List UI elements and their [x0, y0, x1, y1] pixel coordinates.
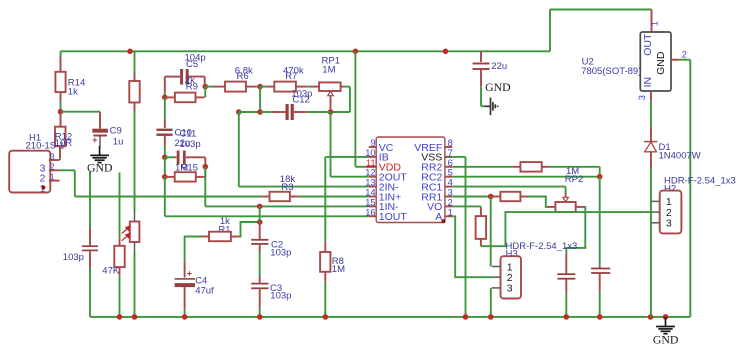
- resistor R1 left pin: [202, 236, 209, 238]
- diode D1 pin: [650, 152, 652, 168]
- svg-text:7805(SOT-89): 7805(SOT-89): [581, 66, 641, 77]
- wire to IC pin13: [239, 186, 369, 188]
- svg-text:1M: 1M: [332, 264, 345, 275]
- capacitor C2 bottom pin: [259, 245, 261, 253]
- wire RR2: [452, 166, 512, 168]
- capacitor C4 bottom pin: [184, 287, 186, 310]
- wire 103p to rail: [89, 269, 91, 317]
- wire R9 right up: [204, 87, 206, 98]
- wire wiper node down: [330, 112, 332, 177]
- capacitor bottom pin: [565, 280, 567, 294]
- potentiometer RP2 body: [555, 202, 575, 212]
- wire resistor to RP2 left: [529, 197, 547, 207]
- svg-text:3: 3: [448, 188, 453, 198]
- junction R15/C11 right node: [203, 164, 209, 170]
- svg-text:1: 1: [650, 21, 660, 26]
- connector H3: [501, 256, 522, 298]
- svg-text:5: 5: [448, 168, 453, 178]
- svg-text:C5: C5: [186, 59, 198, 70]
- svg-text:1M: 1M: [322, 65, 335, 76]
- wire 47K to rail: [119, 275, 121, 317]
- resistor R8: [320, 252, 330, 272]
- wire node to R6: [205, 86, 212, 88]
- resistor R7 right pin: [296, 86, 307, 88]
- resistor R6 left pin: [213, 86, 226, 88]
- potentiometer RP2 left pin: [547, 206, 556, 208]
- IC anchor dot: [442, 219, 446, 223]
- capacitor C10 plate: [156, 129, 172, 131]
- wire rail to VDD: [354, 51, 356, 167]
- capacitor 103p top pin: [89, 227, 91, 245]
- RP2 wiper pin: [565, 193, 567, 197]
- capacitor C3 bottom pin: [259, 289, 261, 307]
- svg-text:103p: 103p: [270, 291, 291, 302]
- capacitor C12 plate: [291, 104, 294, 120]
- svg-text:1N4007W: 1N4007W: [659, 151, 701, 162]
- resistor R12 top pin: [60, 112, 62, 127]
- wire to R9 node: [164, 91, 166, 97]
- resistor R9 right pin: [196, 96, 205, 98]
- IC pin 5 stub: [445, 176, 452, 178]
- svg-text:C12: C12: [292, 95, 309, 106]
- H1 pin 3 stub: [49, 159, 60, 161]
- wire bottom rail: [90, 316, 690, 318]
- resistor R12 bottom pin: [59, 146, 61, 157]
- capacitor C10 bottom pin: [164, 136, 166, 146]
- diode D1 cathode bar: [644, 141, 657, 143]
- wire C12 line: [239, 111, 260, 113]
- potentiometer RP1 left pin: [310, 86, 319, 88]
- wire node down: [259, 87, 261, 112]
- wire to C12: [260, 111, 272, 113]
- potentiometer RP1 right pin: [341, 86, 344, 88]
- junction on bottom rail: [117, 314, 123, 320]
- resistor R14 top pin: [60, 58, 62, 72]
- junction on top rail: [443, 49, 449, 55]
- junction on bottom rail: [564, 314, 570, 320]
- resistor R15 left pin: [165, 176, 175, 178]
- IC pin 6 stub: [445, 166, 452, 168]
- capacitor C5 left pin: [165, 76, 180, 78]
- wire C12 left down to pin13: [238, 112, 240, 187]
- capacitor C2 top pin: [259, 222, 261, 239]
- wire D1 to rail: [650, 168, 652, 317]
- capacitor plate: [557, 278, 575, 280]
- resistor R3: [270, 192, 290, 201]
- capacitor 103p plate: [82, 245, 98, 247]
- svg-text:A: A: [435, 211, 442, 223]
- resistor R9: [175, 93, 196, 103]
- wire left node down: [164, 177, 166, 216]
- ground symbol main: [656, 317, 675, 334]
- svg-text:8: 8: [448, 138, 453, 148]
- wire R7 to RP1: [307, 86, 310, 88]
- capacitor C11 plate: [177, 151, 180, 165]
- wire C5 left down: [164, 77, 166, 92]
- svg-text:2: 2: [50, 162, 55, 172]
- resistor left pin: [492, 196, 500, 198]
- wire R15 right up: [204, 167, 206, 177]
- wire RR1: [452, 196, 492, 198]
- junction C5/R9 right node: [203, 84, 209, 90]
- U2 pin 1: [651, 10, 653, 33]
- wire cap to rail: [599, 292, 601, 317]
- wire RC2: [452, 176, 599, 178]
- resistor R3 right pin: [290, 196, 299, 198]
- wire node to C9: [61, 111, 101, 113]
- IC pin 15 stub: [369, 205, 376, 207]
- junction RC2/RR2 node: [597, 174, 603, 180]
- svg-text:22u: 22u: [491, 61, 507, 72]
- potentiometer RP1 body: [319, 82, 341, 91]
- wire node down: [164, 157, 166, 177]
- junction on bottom rail: [488, 314, 494, 320]
- wire R14 to node: [60, 102, 62, 112]
- capacitor C11 left pin: [174, 156, 176, 158]
- svg-text:103p: 103p: [270, 248, 291, 259]
- IC pin 3 stub: [445, 196, 452, 198]
- wire right rail down: [689, 60, 691, 317]
- wire H3 pin3 to rail: [490, 288, 492, 317]
- wire 22u corner: [481, 105, 485, 107]
- resistor R3 left pin: [262, 196, 270, 198]
- wire R12 to H1 pin3: [59, 158, 61, 161]
- resistor R12: [55, 127, 66, 147]
- wire RP1 right: [344, 86, 350, 88]
- svg-text:3: 3: [666, 218, 672, 230]
- wire down: [74, 170, 76, 196]
- resistor right pin: [520, 196, 528, 198]
- wire between dots: [259, 206, 261, 222]
- capacitor C4 plate: [175, 278, 195, 280]
- svg-text:10: 10: [365, 148, 375, 158]
- potentiometer RP1 wiper arrow: [328, 91, 334, 96]
- wire RP1 right down: [349, 87, 351, 112]
- capacitor top pin: [565, 254, 567, 274]
- wire line2 to IC pin15: [205, 205, 368, 207]
- wire down to wiper: [565, 187, 567, 193]
- wire U2 GND right: [679, 59, 690, 61]
- wire rail to R14: [60, 51, 62, 57]
- svg-text:OUT: OUT: [642, 33, 654, 56]
- svg-text:IN: IN: [642, 77, 654, 88]
- svg-text:1u: 1u: [113, 136, 124, 147]
- H3 pin 2 stub: [492, 276, 501, 278]
- resistor on RR2: [520, 162, 541, 172]
- RP1 wiper pin: [330, 96, 332, 112]
- wire top rail: [61, 50, 551, 52]
- svg-text:16: 16: [365, 207, 375, 217]
- H2 pin 2 stub: [652, 211, 660, 213]
- svg-text:11: 11: [366, 158, 376, 168]
- op-amp IC body: [376, 137, 445, 223]
- H3 pin 3 stub: [492, 287, 501, 289]
- photoresistor top pin: [134, 212, 136, 222]
- junction line2 tap: [257, 204, 263, 210]
- wire R6 to node: [257, 86, 261, 88]
- wire A to H3 pin2: [452, 216, 492, 277]
- capacitor 22u plate: [473, 63, 490, 65]
- resistor right pin: [542, 166, 550, 168]
- U2 pin 3: [650, 91, 652, 101]
- resistor R15 right pin: [196, 176, 206, 178]
- svg-text:1: 1: [50, 172, 55, 182]
- capacitor C5 plate: [180, 69, 183, 85]
- wire R8 to rail: [324, 282, 326, 317]
- H2 pin 1 stub: [652, 200, 660, 202]
- photoresistor arrow: [122, 234, 130, 241]
- resistor R14 bottom pin: [60, 92, 62, 101]
- IC pin 9 stub: [369, 146, 376, 148]
- IC pin 13 stub: [369, 186, 376, 188]
- voltage regulator U2: [640, 32, 671, 91]
- wire IB down to R8: [324, 157, 326, 242]
- wire top rail to U2: [550, 9, 652, 11]
- capacitor C12 left pin: [272, 111, 286, 113]
- H1 pin 2 stub: [49, 169, 60, 171]
- junction on bottom rail: [182, 314, 188, 320]
- svg-text:GND: GND: [653, 333, 679, 347]
- H1 pin 1 stub: [49, 180, 60, 182]
- diode D1 pin: [650, 127, 652, 142]
- junction on bottom rail: [597, 314, 603, 320]
- capacitor top pin: [599, 266, 601, 268]
- svg-text:1OUT: 1OUT: [379, 211, 408, 223]
- wire RC1: [452, 186, 565, 188]
- capacitor plate: [591, 272, 610, 274]
- svg-text:R1: R1: [218, 224, 230, 235]
- junction RP1 wiper node: [328, 109, 334, 115]
- junction C2 top node: [257, 219, 263, 225]
- wire resistor to LDR: [134, 111, 136, 212]
- wire corner down: [599, 167, 601, 177]
- wire C2 to C3: [259, 253, 261, 277]
- svg-text:6: 6: [448, 158, 453, 168]
- wire node to R7: [260, 86, 266, 88]
- junction C12 line left: [236, 109, 242, 115]
- wire right node down: [204, 167, 206, 207]
- resistor R6 right pin: [246, 86, 257, 88]
- photoresistor bottom pin: [134, 242, 136, 252]
- resistor R8 bottom pin: [324, 272, 326, 282]
- wire top rail jog up: [549, 10, 551, 52]
- resistor 47K top pin: [119, 238, 121, 246]
- junction C12 line: [257, 109, 263, 115]
- wire U2 to D1: [650, 101, 652, 127]
- resistor 47K bottom pin: [119, 267, 121, 275]
- capacitor plate: [557, 273, 575, 275]
- IC pin 10 stub: [369, 156, 376, 158]
- capacitor C11 right pin: [186, 156, 205, 158]
- wire IC pin10 IB: [325, 156, 369, 158]
- photoresistor body: [130, 222, 140, 243]
- svg-text:1k: 1k: [68, 86, 78, 97]
- potentiometer RP2 wiper arrow: [563, 197, 569, 202]
- resistor R6: [225, 82, 246, 92]
- wire node down to cap: [599, 177, 601, 266]
- svg-text:3: 3: [50, 151, 55, 161]
- resistor unnamed: [129, 81, 139, 103]
- connector H1: [9, 151, 50, 193]
- resistor R1 right pin: [231, 236, 239, 238]
- resistor R15: [175, 172, 196, 181]
- junction R15 left node: [162, 174, 168, 180]
- capacitor C11 plate: [183, 151, 186, 165]
- IC pin 8 stub: [445, 146, 452, 148]
- resistor R7: [274, 82, 296, 92]
- wire VSS down to rail: [465, 157, 467, 317]
- wire H1 pin2: [60, 169, 75, 171]
- wire resistor to H2 pin2: [481, 212, 652, 246]
- capacitor C10 plate: [156, 134, 172, 136]
- wire VO corner: [480, 206, 482, 208]
- svg-text:2: 2: [682, 50, 687, 60]
- wire node to C11: [165, 156, 174, 158]
- ground symbol at C9: [90, 146, 109, 163]
- H3 pin 1 stub: [492, 266, 501, 268]
- capacitor C9 top pin: [99, 112, 101, 129]
- resistor left pin: [512, 166, 520, 168]
- svg-text:13: 13: [365, 178, 375, 188]
- IC pin 1 stub: [445, 215, 452, 217]
- capacitor plate: [591, 268, 610, 270]
- capacitor 22u plate: [473, 68, 490, 70]
- junction node R14/R12/C9: [58, 109, 64, 115]
- resistor R8 top pin: [324, 242, 326, 252]
- junction R6/R7 node: [257, 84, 263, 90]
- capacitor C3 plate: [251, 287, 268, 289]
- IC pin 2 stub: [445, 205, 452, 207]
- wire C4 to rail: [184, 309, 186, 317]
- wire 22u down: [480, 87, 482, 107]
- resistor on RR1: [500, 192, 520, 201]
- capacitor C9 bottom pin: [99, 136, 101, 146]
- svg-text:103p: 103p: [63, 252, 84, 263]
- capacitor C2 plate: [251, 239, 268, 241]
- wire C12 to wiper node: [307, 111, 330, 113]
- wire VSS: [452, 156, 465, 158]
- capacitor bottom pin: [599, 274, 601, 292]
- svg-text:GND: GND: [655, 51, 667, 75]
- wire cap to rail: [565, 293, 567, 317]
- wire to node: [204, 83, 206, 87]
- capacitor C9 plate: [93, 135, 107, 137]
- wire C11 right down: [204, 157, 206, 166]
- capacitor C12 right pin: [294, 111, 308, 113]
- svg-text:15: 15: [365, 197, 375, 207]
- wire rail to resistor: [134, 51, 136, 73]
- svg-text:+: +: [187, 268, 193, 279]
- capacitor 103p bottom pin: [89, 251, 91, 269]
- photoresistor arrow: [122, 226, 130, 233]
- svg-text:C9: C9: [110, 126, 122, 137]
- svg-text:R6: R6: [237, 71, 249, 82]
- wire RR1 node down: [490, 197, 492, 267]
- potentiometer RP2 right pin: [576, 206, 585, 208]
- svg-text:4: 4: [448, 178, 453, 188]
- capacitor C4 top pin: [184, 261, 186, 277]
- svg-text:2: 2: [448, 197, 453, 207]
- junction on bottom rail: [257, 314, 263, 320]
- wire RP1 right to wiper node: [331, 111, 350, 113]
- wire to IC pin12: [331, 176, 369, 178]
- IC pin 4 stub: [445, 186, 452, 188]
- wire line1 to R3: [75, 196, 262, 198]
- resistor 47K: [114, 246, 124, 267]
- capacitor C4 plate: [175, 283, 195, 287]
- IC pin 16 stub: [369, 215, 376, 217]
- diode D1 triangle: [645, 142, 657, 152]
- junction on bottom rail: [663, 314, 669, 320]
- capacitor C5 plate: [186, 69, 189, 85]
- capacitor C3 plate: [251, 283, 268, 285]
- resistor R9 left pin: [165, 96, 175, 98]
- capacitor C2 plate: [251, 243, 268, 245]
- svg-text:12: 12: [365, 168, 375, 178]
- junction on bottom rail: [463, 314, 469, 320]
- wire LDR to rail: [134, 252, 136, 317]
- svg-text:14: 14: [365, 188, 375, 198]
- resistor R1: [209, 232, 231, 242]
- svg-text:7: 7: [448, 148, 453, 158]
- wire D1 rail join: [650, 314, 652, 317]
- resistor on VO: [476, 216, 487, 239]
- wire GND stub to 47K: [119, 173, 121, 238]
- wire C10 to node: [164, 146, 166, 157]
- IC pin 7 stub: [445, 156, 452, 158]
- H2 pin 3 stub: [652, 222, 660, 224]
- svg-text:RP2: RP2: [565, 174, 583, 185]
- wire node down to C10: [164, 97, 166, 120]
- capacitor 22u bottom pin: [480, 70, 482, 87]
- junction on top rail: [127, 49, 133, 55]
- svg-text:47K: 47K: [102, 266, 120, 277]
- wire to node: [550, 166, 600, 168]
- junction RR1 node: [488, 194, 494, 200]
- resistor bottom pin: [134, 103, 136, 111]
- svg-text:GND: GND: [485, 80, 511, 94]
- U2 pin 2: [671, 59, 679, 61]
- connector H2: [660, 191, 682, 234]
- capacitor C3 top pin: [259, 276, 261, 283]
- wire line3 to IC pin16: [165, 215, 369, 217]
- resistor top pin: [480, 208, 482, 216]
- svg-text:103p: 103p: [180, 139, 201, 150]
- wire RP2 right down to cap: [566, 207, 585, 254]
- H1 anchor dot: [41, 186, 45, 190]
- IC pin 12 stub: [369, 176, 376, 178]
- svg-text:47uf: 47uf: [195, 285, 214, 296]
- resistor R14: [55, 72, 65, 92]
- capacitor 103p plate: [82, 250, 98, 252]
- wire VO: [452, 205, 481, 207]
- wire C5 right down: [204, 77, 206, 83]
- svg-text:1: 1: [448, 207, 453, 217]
- svg-text:+: +: [92, 135, 97, 145]
- junction C5/R9 left node: [162, 95, 168, 101]
- ground symbol rotated: [485, 98, 498, 116]
- resistor bottom pin: [480, 239, 482, 246]
- capacitor C12 plate: [286, 104, 289, 120]
- capacitor C5 right pin: [189, 76, 205, 78]
- svg-text:210-1S-1: 210-1S-1: [26, 140, 65, 151]
- wire R1 left to C4: [185, 237, 202, 262]
- junction on bottom rail: [323, 314, 329, 320]
- capacitor C9 plate: [92, 129, 108, 133]
- wire C3 to rail: [259, 307, 261, 317]
- wire GND stub to 103p cap: [89, 171, 91, 227]
- svg-text:H2: H2: [664, 183, 676, 194]
